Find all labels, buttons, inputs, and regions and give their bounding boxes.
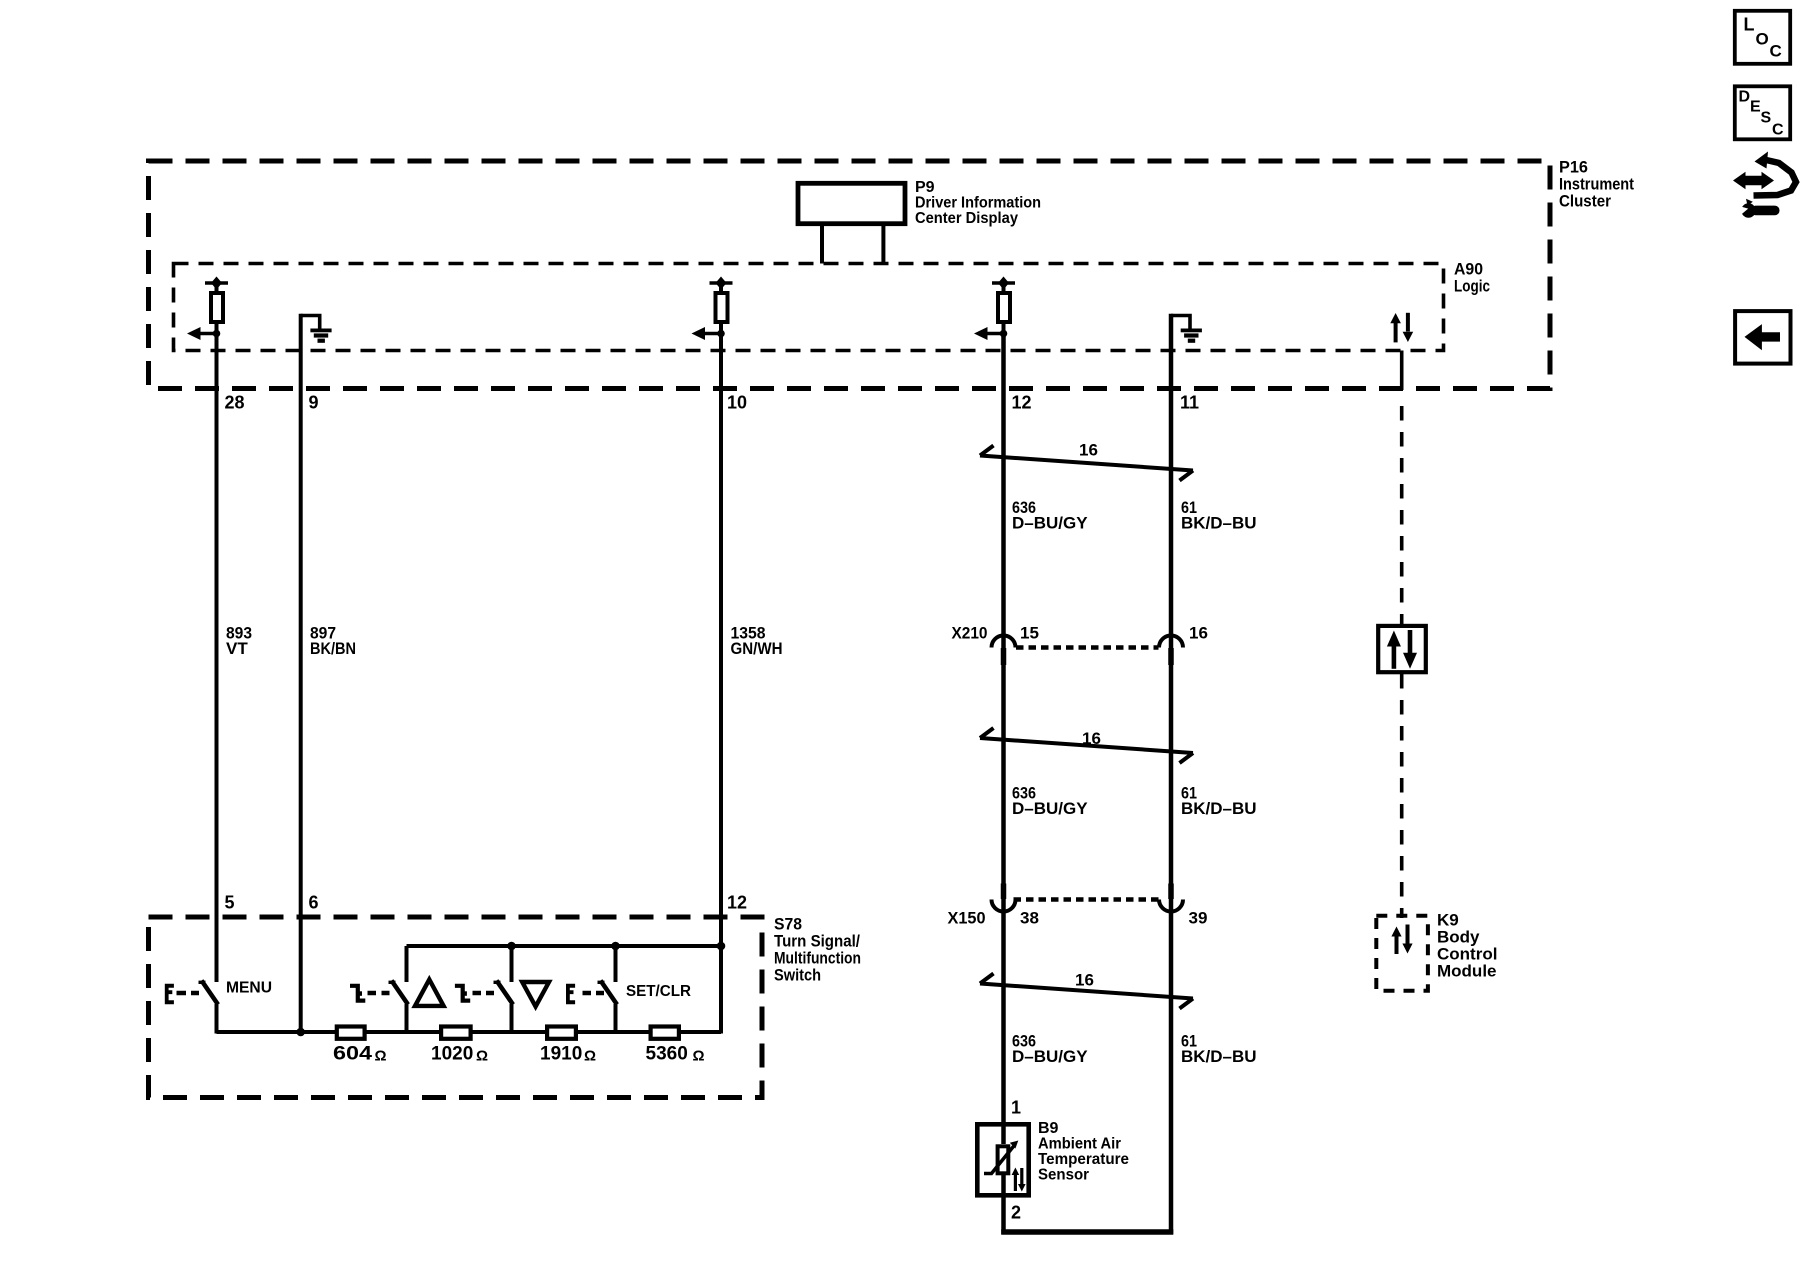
svg-text:6: 6 (309, 893, 319, 913)
svg-text:2: 2 (1011, 1203, 1021, 1223)
svg-text:Logic: Logic (1454, 277, 1490, 296)
icon back-arrow box (1735, 311, 1790, 364)
switch DOWN (455, 946, 513, 1034)
twisted pair crossing 1 (980, 441, 1193, 481)
junction dot at down switch (507, 942, 516, 951)
svg-text:16: 16 (1189, 624, 1208, 643)
A90 Logic dashed box (174, 260, 1491, 351)
K9 Body Control Module dashed box (1376, 911, 1497, 991)
switch UP (350, 946, 408, 1034)
svg-text:D–BU/GY: D–BU/GY (1012, 1047, 1088, 1066)
svg-text:X150: X150 (948, 909, 986, 928)
resistor symbol pin 10 (internal pull-up) (692, 277, 733, 341)
svg-text:Ω: Ω (693, 1048, 705, 1065)
svg-text:Sensor: Sensor (1038, 1166, 1089, 1183)
svg-text:MENU: MENU (226, 980, 272, 997)
switch SET/CLR (566, 946, 691, 1034)
svg-text:C: C (1770, 42, 1782, 61)
svg-text:5: 5 (225, 893, 235, 913)
svg-text:11: 11 (1180, 393, 1199, 413)
resistor 604 ohm (337, 1027, 365, 1039)
dashed wire continues to K9 (1400, 674, 1404, 918)
svg-text:1: 1 (1011, 1098, 1021, 1118)
svg-text:SET/CLR: SET/CLR (626, 983, 691, 1000)
K9 up/down arrows (1391, 925, 1412, 955)
icon LOC box (1735, 11, 1790, 64)
svg-text:12: 12 (727, 893, 747, 913)
svg-text:GN/WH: GN/WH (731, 639, 783, 658)
svg-text:D: D (1739, 88, 1751, 105)
svg-text:C: C (1772, 122, 1784, 139)
svg-text:39: 39 (1189, 909, 1208, 928)
svg-text:Ambient Air: Ambient Air (1038, 1135, 1121, 1152)
svg-text:Switch: Switch (774, 966, 821, 985)
svg-text:Ω: Ω (476, 1048, 488, 1065)
connector X210 (952, 624, 1208, 666)
connector X150 (948, 884, 1208, 928)
resistor 1020 ohm (441, 1027, 471, 1039)
twisted pair crossing 2 (980, 728, 1193, 763)
icon DESC box (1735, 86, 1790, 139)
P9 Driver Information Center Display box (798, 179, 1041, 227)
resistor symbol pin 12 (internal pull-up) (974, 277, 1015, 341)
svg-text:5360: 5360 (646, 1044, 688, 1065)
svg-text:Temperature: Temperature (1038, 1151, 1129, 1168)
svg-text:9: 9 (309, 393, 319, 413)
S78 Turn Signal/Multifunction Switch dashed box (149, 915, 862, 1098)
switch MENU (165, 980, 272, 1034)
junction dot at wire 6 (296, 1028, 305, 1037)
ground symbol pin 11 (1171, 316, 1202, 343)
B9 small up/down arrows (1012, 1168, 1026, 1192)
svg-text:P9: P9 (915, 179, 935, 196)
svg-text:BK/BN: BK/BN (310, 639, 356, 658)
svg-text:Ω: Ω (584, 1048, 596, 1065)
svg-text:BK/D–BU: BK/D–BU (1181, 1047, 1257, 1066)
svg-text:VT: VT (226, 639, 248, 658)
svg-text:38: 38 (1020, 909, 1039, 928)
svg-text:X210: X210 (952, 624, 988, 643)
wire 1358 GN/WH (pin 10 to S78 pin 12) (719, 334, 723, 1034)
wire 893 VT (pin 28 to S78 pin 5) (215, 334, 219, 983)
resistor 1910 ohm (547, 1027, 576, 1039)
wire P9 right leg (881, 226, 885, 264)
S78 top bus wire (407, 944, 722, 948)
svg-text:16: 16 (1082, 729, 1101, 748)
wire 897 BK/BN (pin 9 to S78 pin 6) (299, 314, 303, 1034)
junction dot at wire 12 (717, 942, 726, 951)
ground symbol pin 9 (301, 316, 332, 343)
svg-text:16: 16 (1079, 441, 1098, 460)
svg-text:Driver Information: Driver Information (915, 195, 1041, 212)
wire 636 D-BU/GY (pin 12 to B9 pin 1) (1001, 334, 1006, 1123)
svg-text:28: 28 (225, 393, 245, 413)
serial data in-line connector symbol (box with up/down arrows) (1378, 626, 1426, 672)
svg-text:Module: Module (1437, 962, 1497, 981)
serial data wire to BCM (dashed) (1400, 351, 1404, 391)
icon data-link (double arrow, hook arrow, wrench) (1733, 152, 1796, 218)
B9 Ambient Air Temperature Sensor box (977, 1120, 1129, 1196)
svg-text:1020: 1020 (431, 1044, 473, 1065)
svg-text:Ω: Ω (375, 1048, 387, 1065)
svg-text:10: 10 (727, 393, 747, 413)
thermistor element (984, 1141, 1018, 1174)
svg-text:D–BU/GY: D–BU/GY (1012, 513, 1088, 532)
svg-text:O: O (1756, 30, 1769, 49)
wire P9 left leg (820, 226, 824, 264)
wire 61 BK/D-BU (pin 11 to B9 return) (1169, 314, 1174, 1234)
junction dot at set/clr switch (611, 942, 620, 951)
resistor symbol pin 28 (internal pull-up) (187, 277, 228, 341)
serial data up/down arrows in A90 (1390, 313, 1413, 343)
wire B9 pin2 down (1001, 1198, 1006, 1235)
up arrow triangle label (415, 980, 444, 1006)
S78 bottom bus wire (217, 1030, 722, 1034)
bottom return wire (1001, 1229, 1173, 1235)
svg-text:12: 12 (1012, 393, 1032, 413)
svg-text:15: 15 (1020, 624, 1039, 643)
svg-text:D–BU/GY: D–BU/GY (1012, 799, 1088, 818)
svg-text:L: L (1744, 15, 1755, 35)
svg-text:E: E (1750, 99, 1761, 116)
svg-text:B9: B9 (1038, 1120, 1059, 1137)
svg-text:604: 604 (333, 1044, 373, 1065)
P16 Instrument Cluster dashed box (149, 158, 1635, 389)
svg-text:S: S (1761, 110, 1772, 127)
down arrow triangle label (522, 982, 549, 1007)
svg-text:BK/D–BU: BK/D–BU (1181, 799, 1257, 818)
svg-text:1910: 1910 (540, 1044, 582, 1065)
resistor 5360 ohm (651, 1027, 679, 1039)
svg-text:Cluster: Cluster (1559, 192, 1611, 211)
svg-text:BK/D–BU: BK/D–BU (1181, 513, 1257, 532)
wire through B9 (1001, 1122, 1006, 1144)
twisted pair crossing 3 (980, 971, 1193, 1009)
svg-text:Center Display: Center Display (915, 210, 1018, 227)
svg-text:16: 16 (1075, 971, 1094, 990)
